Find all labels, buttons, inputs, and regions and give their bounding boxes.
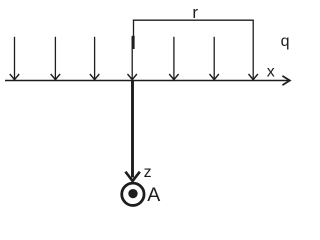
label q bbox=[281, 33, 290, 50]
svg-text:q: q bbox=[281, 33, 290, 50]
dimension bracket r: horizontal span bbox=[133, 19, 254, 21]
distributed-load arrow 6 bbox=[210, 37, 219, 80]
distributed-load arrow 3 bbox=[90, 37, 99, 80]
x-axis line bbox=[5, 80, 289, 82]
svg-text:A: A bbox=[147, 184, 160, 206]
point A symbol: outer circle bbox=[122, 183, 144, 205]
thick z arrow shaft bbox=[131, 81, 134, 178]
bold overlap bar where bracket tick meets arrow 4 bbox=[132, 36, 135, 49]
distributed-load arrow 5 bbox=[169, 37, 178, 80]
dimension bracket r: left tick bbox=[133, 20, 135, 49]
label A bbox=[147, 184, 160, 206]
distributed-load arrow 4 (under bracket left corner) bbox=[128, 37, 137, 80]
distributed-load arrow 1 bbox=[10, 37, 19, 80]
thick z arrowhead bbox=[125, 172, 139, 181]
distributed-load arrow 2 bbox=[51, 37, 60, 80]
distributed-load arrow 7 (forms right side of bracket r) bbox=[249, 20, 258, 79]
label z bbox=[144, 164, 152, 181]
x-axis arrowhead bbox=[282, 76, 290, 85]
svg-text:r: r bbox=[192, 3, 198, 22]
label x bbox=[267, 64, 275, 81]
point A symbol: center dot bbox=[128, 189, 137, 198]
svg-text:z: z bbox=[144, 164, 152, 181]
label r bbox=[192, 3, 198, 22]
svg-text:x: x bbox=[267, 64, 275, 81]
